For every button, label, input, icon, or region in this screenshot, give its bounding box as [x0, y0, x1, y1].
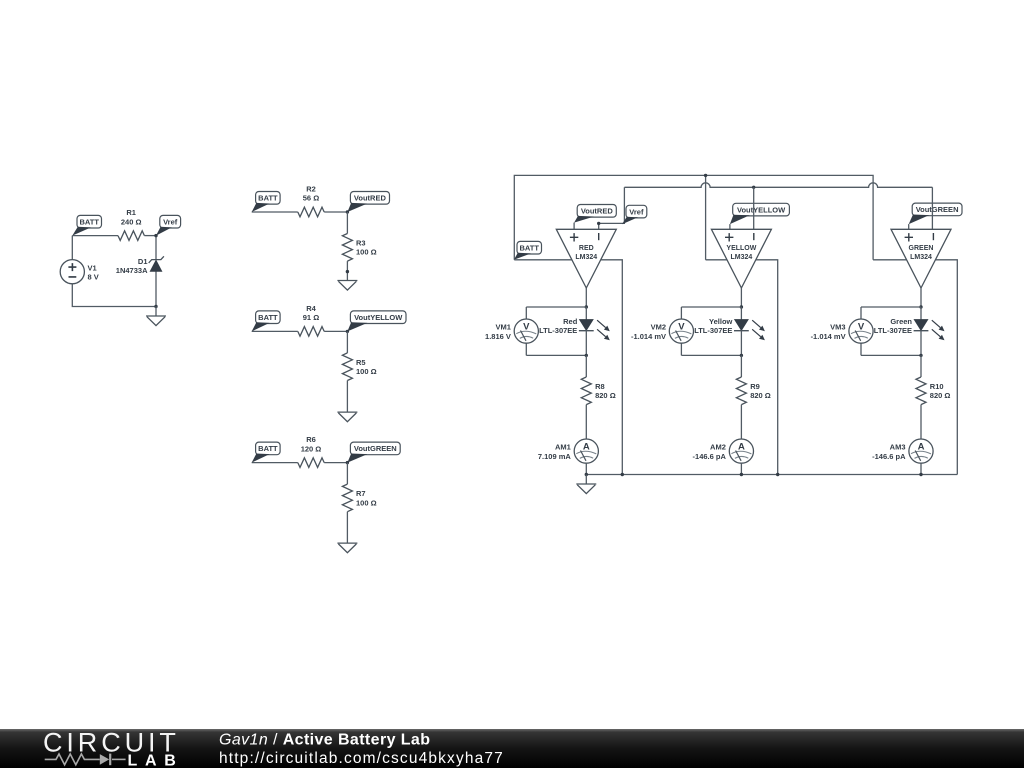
ground (V1 circuit) [146, 316, 166, 326]
wire VM2 top lead [680, 307, 682, 319]
LED Red LTL-307EE [539, 317, 610, 340]
junction U2 output node [740, 305, 743, 308]
svg-text:R7: R7 [356, 489, 366, 498]
wire U1 output [585, 288, 587, 307]
zener diode D1 1N4733A [116, 256, 164, 275]
svg-text:R2: R2 [306, 184, 316, 193]
wire V1 minus to ground net [72, 284, 156, 307]
svg-text:R6: R6 [306, 435, 316, 444]
wire LED to R node [740, 331, 742, 356]
ground (divider 2) [337, 412, 357, 422]
svg-text:Vref: Vref [629, 207, 644, 216]
wire R7 to ground [346, 512, 348, 543]
svg-text:Gav1n / Active Battery Lab: Gav1n / Active Battery Lab [219, 732, 430, 749]
wire VM1 bottom loop [526, 354, 586, 356]
wire AM3 to ground rail [920, 463, 922, 475]
svg-text:120 Ω: 120 Ω [301, 444, 322, 453]
wire to ground symbol [155, 307, 157, 317]
svg-text:-1.014 mV: -1.014 mV [631, 332, 666, 341]
wire U3 non-inverting pin stub [908, 224, 910, 229]
junction ground rail U1 supply [621, 473, 624, 476]
resistor R6 [298, 435, 324, 467]
wire U3 output [920, 288, 922, 307]
node VoutGREEN junction [346, 461, 349, 464]
wire LED to R node [585, 331, 587, 356]
resistor R1 240 ohm [118, 208, 144, 240]
net flag Vref (V1 circuit) [156, 215, 181, 235]
LED Yellow LTL-307EE [694, 317, 765, 340]
svg-text:-1.014 mV: -1.014 mV [811, 332, 846, 341]
svg-text:LTL-307EE: LTL-307EE [874, 326, 912, 335]
wire Vref rail with crossover hops [624, 183, 932, 188]
junction AM1 at ground rail [585, 473, 588, 476]
resistor R10 820 ohm [916, 377, 950, 405]
svg-text:http://circuitlab.com/cscu4bkx: http://circuitlab.com/cscu4bkxyha77 [219, 750, 504, 767]
wire ground rail [586, 474, 957, 476]
net flag VoutGREEN (divider 3) [347, 442, 400, 463]
junction BATT rail [704, 174, 707, 177]
svg-text:820 Ω: 820 Ω [930, 391, 951, 400]
svg-text:820 Ω: 820 Ω [595, 391, 616, 400]
svg-text:56 Ω: 56 Ω [303, 194, 319, 203]
resistor R2 [298, 184, 324, 216]
svg-text:VoutGREEN: VoutGREEN [916, 205, 959, 214]
wire R2 to VoutRED node [324, 211, 347, 213]
ammeter AM1 [538, 439, 599, 463]
net flag BATT (divider 2) [252, 311, 280, 332]
junction LED cathode node [740, 354, 743, 357]
svg-text:LM324: LM324 [731, 254, 753, 261]
wire BATT flag to R2 [252, 211, 298, 213]
wire U1 inverting input to Vref rail [599, 187, 625, 223]
wire U2 non-inverting pin stub [729, 224, 731, 229]
svg-text:VoutGREEN: VoutGREEN [354, 444, 397, 453]
wire to LED Yellow [740, 307, 742, 320]
svg-text:VM3: VM3 [830, 323, 845, 332]
svg-text:R8: R8 [595, 382, 605, 391]
svg-text:100 Ω: 100 Ω [356, 367, 377, 376]
wire to R9 [740, 355, 742, 377]
svg-text:LM324: LM324 [575, 254, 597, 261]
wire to main ground [585, 475, 587, 485]
svg-text:8 V: 8 V [88, 272, 99, 281]
svg-text:VoutRED: VoutRED [581, 207, 614, 216]
svg-text:-146.6 pA: -146.6 pA [872, 452, 906, 461]
wire VM2 top loop [681, 306, 741, 308]
ground (LED circuits) [576, 484, 596, 494]
junction ground net V1 circuit [154, 305, 157, 308]
resistor R4 [298, 304, 324, 336]
wire U2 positive supply [706, 259, 727, 261]
svg-text:VM1: VM1 [495, 323, 510, 332]
resistor R3 100 ohm [342, 234, 376, 262]
svg-text:V1: V1 [88, 263, 97, 272]
svg-text:LTL-307EE: LTL-307EE [539, 326, 577, 335]
wire U1 positive supply [514, 259, 572, 261]
svg-text:1.816 V: 1.816 V [485, 332, 511, 341]
node VoutYELLOW junction [346, 330, 349, 333]
net flag BATT (divider 3) [252, 442, 280, 463]
wire VM1 top loop [526, 306, 586, 308]
svg-text:LTL-307EE: LTL-307EE [694, 326, 732, 335]
footer bar [0, 729, 1024, 768]
junction U3 output node [919, 305, 922, 308]
svg-text:91 Ω: 91 Ω [303, 313, 319, 322]
wire BATT rail branch to U2 [705, 175, 707, 259]
wire VM3 bottom loop [861, 354, 921, 356]
svg-text:AM1: AM1 [555, 442, 571, 451]
wire VM3 bottom lead [860, 343, 862, 356]
wire VM2 bottom loop [681, 354, 741, 356]
node Vref junction [154, 234, 157, 237]
net flag VoutRED (divider 1) [347, 192, 389, 213]
net flag BATT (divider 1) [252, 192, 280, 213]
wire Vref node to D1 cathode [155, 236, 157, 260]
resistor R7 100 ohm [342, 484, 376, 512]
svg-text:100 Ω: 100 Ω [356, 498, 377, 507]
wire R1 to Vref node [144, 235, 156, 237]
svg-text:7.109 mA: 7.109 mA [538, 452, 572, 461]
wire VoutYELLOW node down to R5 [346, 331, 348, 353]
svg-text:D1: D1 [138, 257, 148, 266]
voltmeter VM1 [485, 319, 538, 343]
junction LED cathode node [919, 354, 922, 357]
svg-text:1N4733A: 1N4733A [116, 266, 148, 275]
svg-text:R4: R4 [306, 304, 316, 313]
wire R8 to AM1 [585, 405, 587, 440]
svg-text:Green: Green [890, 317, 912, 326]
wire BATT node down to V1 plus [71, 236, 73, 260]
svg-text:VoutRED: VoutRED [354, 194, 387, 203]
svg-text:-146.6 pA: -146.6 pA [693, 452, 727, 461]
junction U1 output node [585, 305, 588, 308]
resistor R5 100 ohm [342, 353, 376, 381]
wire U1 inverting pin stub [598, 223, 600, 229]
wire BATT node to R1 [72, 235, 118, 237]
wire U3 inverting input from Vref rail [931, 187, 933, 229]
svg-text:R1: R1 [126, 208, 136, 217]
net flag BATT (V1 circuit) [72, 215, 101, 235]
svg-text:VM2: VM2 [651, 323, 666, 332]
wire to R10 [920, 355, 922, 377]
wire R3 to ground [346, 261, 348, 280]
voltmeter VM3 [811, 319, 874, 343]
voltage source V1 8V [60, 260, 99, 284]
junction above ground (divider 1) [346, 270, 349, 273]
wire R5 to ground [346, 381, 348, 413]
junction Vref rail to U2 inverting input [752, 186, 755, 189]
wire BATT flag to R6 [252, 462, 298, 464]
svg-text:R9: R9 [750, 382, 760, 391]
resistor R8 820 ohm [581, 377, 615, 405]
svg-text:YELLOW: YELLOW [726, 245, 756, 252]
wire R4 to VoutYELLOW node [324, 330, 347, 332]
op-amp U3 GREEN LM324 [891, 229, 951, 288]
svg-text:240 Ω: 240 Ω [121, 217, 142, 226]
svg-text:VoutYELLOW: VoutYELLOW [737, 205, 786, 214]
wire VM3 top lead [860, 307, 862, 319]
svg-text:820 Ω: 820 Ω [750, 391, 771, 400]
net flag VoutRED (U1 input) [574, 205, 616, 223]
svg-text:LAB: LAB [128, 752, 184, 768]
net flag VoutYELLOW (divider 2) [347, 311, 406, 332]
wire U2 output [740, 288, 742, 307]
voltmeter VM2 [631, 319, 694, 343]
ammeter AM3 [872, 439, 933, 463]
net flag VoutGREEN (U3 input) [909, 203, 962, 224]
wire R9 to AM2 [740, 405, 742, 440]
wire VM2 bottom lead [680, 343, 682, 356]
ground (divider 1) [337, 281, 357, 291]
svg-text:R5: R5 [356, 358, 366, 367]
wire AM1 to ground rail [585, 463, 587, 475]
ammeter AM2 [693, 439, 754, 463]
junction ground rail U2 supply [776, 473, 779, 476]
svg-text:Vref: Vref [163, 217, 178, 226]
wire U2 inverting input from Vref rail [753, 187, 755, 229]
wire VoutRED node down to R3 [346, 212, 348, 234]
svg-text:BATT: BATT [79, 217, 99, 226]
wire U3 positive supply [873, 259, 907, 261]
junction AM3 at ground rail [919, 473, 922, 476]
wire VM3 top loop [861, 306, 921, 308]
net flag BATT (op-amp supply) [514, 241, 542, 259]
wire VM1 top lead [525, 307, 527, 319]
svg-text:BATT: BATT [258, 313, 278, 322]
wire D1 anode to ground net [155, 271, 157, 306]
junction AM2 at ground rail [740, 473, 743, 476]
wire R6 to VoutGREEN node [324, 462, 347, 464]
wire to R8 [585, 355, 587, 377]
LED Green LTL-307EE [874, 317, 945, 340]
svg-text:Yellow: Yellow [709, 317, 733, 326]
CircuitLab logo schematic squiggle [45, 754, 126, 766]
junction U1 inverting pin [597, 222, 600, 225]
wire LED to R node [920, 331, 922, 356]
svg-text:RED: RED [579, 245, 594, 252]
node VoutRED junction [346, 210, 349, 213]
wire U3 negative supply to ground rail [935, 260, 957, 475]
junction LED cathode node [585, 354, 588, 357]
wire U1 negative supply to ground rail [601, 260, 623, 475]
wire to LED Green [920, 307, 922, 320]
wire VM1 bottom lead [525, 343, 527, 356]
svg-text:R3: R3 [356, 239, 366, 248]
wire U1 non-inverting pin stub [573, 223, 575, 230]
net flag VoutYELLOW (U2 input) [730, 203, 790, 224]
svg-text:GREEN: GREEN [909, 245, 934, 252]
op-amp U1 RED LM324 [556, 229, 616, 288]
wire R10 to AM3 [920, 405, 922, 440]
svg-text:100 Ω: 100 Ω [356, 248, 377, 257]
wire BATT flag to R4 [252, 330, 298, 332]
resistor R9 820 ohm [736, 377, 770, 405]
svg-text:BATT: BATT [258, 444, 278, 453]
op-amp U2 YELLOW LM324 [711, 229, 771, 288]
svg-text:AM2: AM2 [710, 442, 726, 451]
svg-text:VoutYELLOW: VoutYELLOW [354, 313, 403, 322]
ground (divider 3) [337, 543, 357, 553]
svg-text:Red: Red [563, 317, 578, 326]
wire BATT top rail [514, 175, 873, 259]
svg-text:BATT: BATT [519, 243, 539, 252]
wire AM2 to ground rail [740, 463, 742, 475]
svg-text:R10: R10 [930, 382, 944, 391]
svg-text:AM3: AM3 [890, 442, 906, 451]
wire to LED Red [585, 307, 587, 320]
wire VoutGREEN node down to R7 [346, 463, 348, 485]
wire U2 negative supply to ground rail [756, 260, 778, 475]
svg-text:LM324: LM324 [910, 254, 932, 261]
net flag Vref (U1 input) [622, 205, 647, 224]
svg-text:BATT: BATT [258, 194, 278, 203]
